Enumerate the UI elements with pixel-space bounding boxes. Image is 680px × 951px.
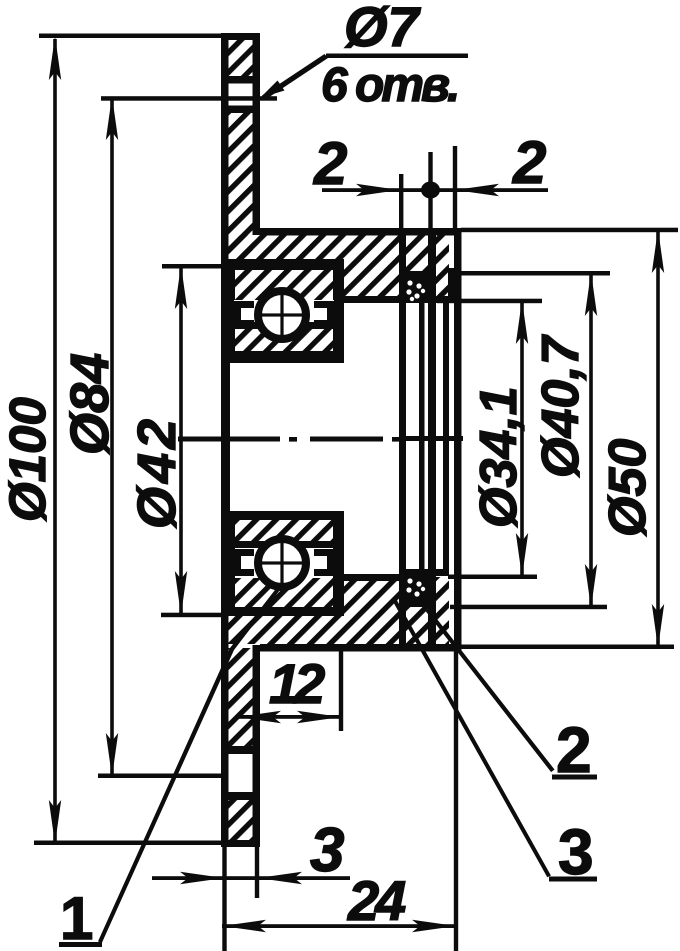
svg-text:24: 24 (347, 869, 406, 932)
groove hatch top (406, 235, 428, 272)
dim 2-2 extension lines (399, 146, 457, 234)
groove hatch bottom (404, 607, 428, 644)
flange hatch bottom (228, 800, 253, 840)
svg-text:2: 2 (556, 714, 592, 786)
hub top shoulder edge (334, 296, 410, 303)
dim F42 line (161, 264, 226, 617)
svg-text:6 отв.: 6 отв. (321, 59, 457, 112)
groove bottom edge top (404, 271, 428, 278)
svg-text:2: 2 (512, 129, 546, 196)
flange left wall (221, 33, 229, 847)
bottom bearing race grooves (234, 549, 334, 576)
hub bottom edge (260, 644, 461, 652)
flange web between bearings (221, 356, 230, 512)
cell hatch bottom right (436, 577, 449, 644)
top bearing (221, 259, 344, 363)
bore step wall A (399, 235, 406, 645)
bolt hole top upper edge (227, 76, 253, 84)
groove top edge bottom (404, 600, 428, 607)
svg-text:Ø42: Ø42 (127, 415, 187, 529)
flange right wall upper (253, 36, 261, 235)
top bearing race grooves (234, 300, 334, 328)
svg-text:3: 3 (310, 816, 344, 885)
leader 3 (393, 600, 597, 882)
dim 3 (152, 847, 350, 951)
flange top edge (221, 33, 260, 40)
svg-text:Ø50: Ø50 (599, 439, 657, 537)
leader 1 (59, 584, 283, 948)
circlip bottom top edge (399, 569, 449, 576)
hub top wall hatch left (227, 235, 342, 263)
flange bottom edge (221, 840, 260, 847)
circlip top (404, 278, 428, 303)
hub bottom shoulder edge (334, 574, 410, 581)
flange hatch mid (228, 113, 253, 262)
hub top wall hatch right (342, 235, 400, 297)
bolt hole bottom lower edge (227, 792, 253, 800)
wall B (428, 228, 436, 651)
hub bottom wall hatch right (342, 581, 400, 644)
hub bottom wall hatch left (227, 614, 342, 644)
dim 2-2 line (322, 182, 548, 199)
bottom bearing (221, 511, 344, 616)
seal block top right (448, 268, 455, 303)
svg-text:Ø34,1: Ø34,1 (470, 386, 528, 528)
svg-text:1: 1 (60, 885, 93, 951)
svg-text:12: 12 (269, 652, 325, 715)
cell bottom edge (428, 296, 449, 303)
dim F40.7 line (450, 271, 610, 609)
circlip bottom (404, 575, 428, 600)
bottom bearing ball (257, 537, 307, 589)
top bearing ball (257, 289, 307, 341)
hub right end face (454, 228, 462, 651)
spacer tube wall (419, 303, 425, 576)
dim F50 line (461, 228, 678, 649)
flange hatch upper (228, 39, 253, 77)
bore wall right (443, 303, 449, 575)
flange hatch below hub (228, 648, 253, 746)
flange right wall lower (253, 645, 261, 847)
dim F34.1 line (437, 299, 542, 579)
dim F84 line (98, 96, 277, 778)
center axis line (178, 436, 463, 442)
bolt hole bottom upper edge (227, 746, 253, 754)
cell hatch top right (436, 235, 449, 297)
svg-text:Ø7: Ø7 (344, 0, 422, 58)
svg-text:Ø40,7: Ø40,7 (532, 334, 590, 478)
svg-text:3: 3 (558, 816, 594, 888)
leader 2 (426, 609, 598, 780)
svg-text:Ø84: Ø84 (60, 353, 120, 455)
svg-text:Ø100: Ø100 (0, 397, 56, 522)
dim F100 line (34, 34, 222, 846)
bolt hole top lower edge (227, 106, 253, 114)
callout F7 6 holes (260, 54, 468, 100)
hub top edge (260, 228, 461, 236)
dim 24 (222, 651, 458, 951)
dim 12 (237, 648, 343, 731)
svg-text:2: 2 (313, 130, 347, 197)
